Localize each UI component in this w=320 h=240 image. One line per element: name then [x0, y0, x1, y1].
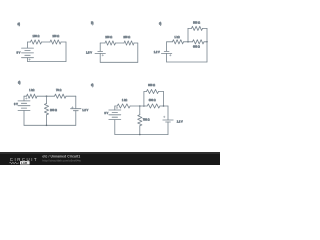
svg-text:200 Ω: 200 Ω [50, 108, 57, 112]
wire c up branch [187, 28, 189, 41]
svg-text:1 kΩ: 1 kΩ [29, 88, 34, 92]
resistor R13 600ohm middle [147, 104, 160, 108]
battery V3 1.2V [164, 50, 169, 52]
battery V4 9V [18, 100, 30, 102]
wire d left [23, 96, 25, 101]
node c right junction [206, 41, 208, 43]
svg-text:d): d) [18, 80, 20, 84]
wire e bottom [115, 134, 168, 136]
wire c right down [206, 42, 208, 62]
wire b bottom [100, 61, 138, 63]
wire d top right [66, 95, 76, 97]
svg-text:500 Ω: 500 Ω [193, 20, 200, 24]
wire d bottom [24, 124, 76, 126]
watermark bar [0, 152, 220, 165]
wire c top right [203, 27, 208, 29]
svg-text:1.2 V: 1.2 V [154, 50, 160, 54]
wire a top-left [27, 42, 29, 48]
svg-text:1 kΩ: 1 kΩ [122, 98, 127, 102]
svg-text:600 Ω: 600 Ω [193, 44, 200, 48]
svg-text:b): b) [91, 21, 93, 25]
svg-text:9 V: 9 V [16, 50, 20, 54]
node d top junction [46, 95, 48, 97]
wire b right [134, 42, 138, 44]
svg-text:600 Ω: 600 Ω [149, 98, 156, 102]
svg-text:http://circuitlab.com/c6vv64w: http://circuitlab.com/c6vv64w [42, 159, 81, 163]
wire d to junction [37, 95, 55, 97]
battery V5 1.2V right [71, 108, 81, 110]
resistor R14 700ohm vertical [138, 115, 142, 126]
svg-text:200 Ω: 200 Ω [123, 35, 130, 39]
node e right junction [163, 105, 165, 107]
resistor R3 100ohm [105, 41, 116, 45]
svg-text:a): a) [18, 22, 20, 26]
resistor R12 600ohm top [147, 89, 159, 93]
svg-text:e): e) [91, 83, 93, 87]
wire a right [61, 41, 66, 43]
resistor R5 1k [173, 40, 184, 44]
wire c left [166, 42, 168, 52]
battery V6 9V [109, 109, 121, 111]
wire e top right [159, 91, 164, 93]
svg-text:100 Ω: 100 Ω [52, 34, 59, 38]
wire a mid [42, 41, 51, 43]
svg-text:1.2 V: 1.2 V [82, 108, 88, 112]
node e down junction [139, 105, 141, 107]
wire b mid [116, 42, 125, 44]
svg-text:9 V: 9 V [14, 102, 18, 106]
svg-text:100 Ω: 100 Ω [33, 34, 40, 38]
wire c bottom [167, 61, 207, 63]
resistor R6 500ohm top [192, 26, 203, 30]
wire b left [99, 43, 101, 51]
svg-text:LAB: LAB [21, 161, 28, 165]
resistor R9 70ohm [55, 94, 67, 98]
node e bottom junction [139, 134, 141, 136]
svg-text:c): c) [159, 21, 161, 25]
wire e right down [167, 106, 169, 120]
wire d middle branch [46, 96, 48, 103]
wire a bottom [28, 61, 67, 63]
svg-text:600 Ω: 600 Ω [148, 83, 155, 87]
wire e left [114, 106, 116, 110]
node e up junction [143, 105, 145, 107]
resistor R11 1k [117, 104, 130, 108]
wire d right down [75, 111, 77, 126]
wire c mid right [204, 41, 207, 43]
circuitlab logo [10, 157, 38, 162]
wire e up branch [143, 92, 145, 107]
resistor R2 100ohm [50, 40, 61, 44]
resistor R10 200ohm vertical [44, 104, 48, 115]
svg-text:100 Ω: 100 Ω [105, 35, 112, 39]
resistor R4 200ohm [124, 41, 134, 45]
svg-text:1.2 V: 1.2 V [177, 119, 183, 123]
wire e mid right [160, 105, 168, 107]
wire e down branch [139, 106, 141, 115]
battery V2 1.5V [98, 50, 103, 52]
resistor R1 100ohm [31, 40, 42, 44]
wire c to junction [184, 41, 193, 43]
svg-text:700 Ω: 700 Ω [143, 117, 150, 121]
battery V1 9V [22, 47, 34, 49]
svg-text:70 Ω: 70 Ω [56, 88, 61, 92]
svg-text:1 kΩ: 1 kΩ [174, 35, 179, 39]
resistor R7 600ohm middle [193, 40, 205, 44]
node d bottom junction [46, 125, 48, 127]
wire e to junctions [130, 105, 147, 107]
resistor R8 1k [27, 94, 38, 98]
watermark text [42, 155, 81, 163]
svg-text:1.5 V: 1.5 V [86, 50, 92, 54]
node c left junction [187, 41, 189, 43]
svg-text:9 V: 9 V [104, 111, 108, 115]
battery V7 1.2V right [163, 119, 173, 121]
